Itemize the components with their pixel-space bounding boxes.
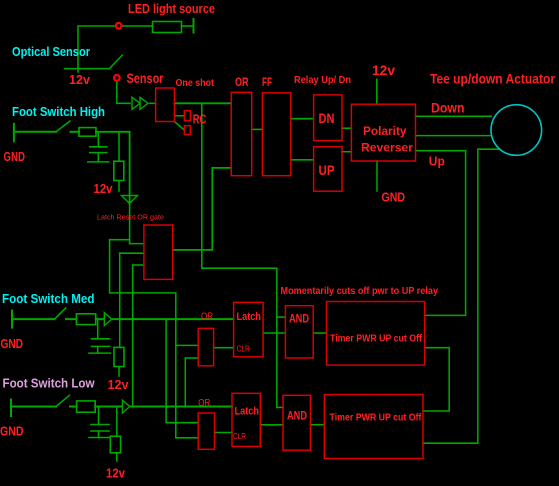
wire LED resistor lead	[182, 25, 194, 27]
wire high cap lead	[97, 132, 99, 147]
node LED supply	[116, 23, 122, 29]
svg-text:OR: OR	[201, 311, 213, 323]
capacitor C3 low	[89, 407, 110, 438]
resistor R4 med series	[76, 314, 95, 325]
terminal LED cathode bar	[193, 19, 195, 33]
op-amp U5 latch reset OR gate	[144, 225, 173, 279]
svg-text:RC: RC	[193, 112, 207, 127]
op-amp U7 Latch1	[234, 302, 264, 357]
op-amp U6 OR1 reset gate	[198, 328, 213, 366]
wire med sense riser	[119, 253, 121, 347]
transistor Q1 high buffer triangle	[122, 196, 138, 204]
svg-text:Foot Switch Med: Foot Switch Med	[2, 291, 95, 306]
wire one shot to RC R	[174, 115, 184, 117]
op-amp U13 Timer2	[324, 395, 423, 459]
op-amp U11 Latch2	[232, 393, 260, 446]
svg-text:AND: AND	[287, 409, 307, 423]
relay DN	[314, 95, 342, 141]
wire LROR input1	[130, 243, 144, 245]
switch SW3 med throw	[55, 308, 66, 319]
wire OR to FF	[252, 128, 263, 130]
wire OR2 input2 stub	[176, 437, 198, 439]
switch SW2 high throw	[56, 121, 70, 132]
wire OR1 out to latch1 CLR	[214, 347, 234, 349]
diode D1 sensor	[132, 97, 140, 109]
svg-text:Timer PWR UP cut Off: Timer PWR UP cut Off	[330, 412, 422, 424]
capacitor RC C	[184, 126, 190, 135]
svg-text:12v: 12v	[108, 377, 130, 392]
wire latch1 to AND1	[263, 332, 285, 334]
op-amp U4 polarity reverser	[351, 104, 415, 161]
op-amp U2 OR gate	[231, 92, 252, 175]
wire low pullup to 12v	[116, 454, 118, 461]
svg-text:Momentarily cuts off pwr to UP: Momentarily cuts off pwr to UP relay	[281, 286, 439, 297]
svg-text:OR: OR	[235, 77, 249, 89]
op-amp U12 AND2	[283, 395, 310, 450]
svg-text:CLR: CLR	[233, 431, 246, 441]
resistor R2 high series	[79, 128, 96, 137]
svg-text:Latch: Latch	[237, 311, 262, 323]
wire actuator to timer2	[423, 149, 499, 443]
resistor R7 low pullup	[110, 436, 120, 453]
wire one shot output	[174, 102, 231, 104]
wire UP to PR	[342, 151, 351, 153]
svg-text:One shot: One shot	[176, 77, 215, 89]
op-amp U8 AND1	[285, 306, 313, 358]
svg-text:Relay Up/ Dn: Relay Up/ Dn	[294, 75, 351, 86]
wire low pullup lead	[116, 407, 118, 437]
wire buffer down	[129, 204, 131, 244]
resistor R1 LED	[153, 22, 182, 33]
wire PR down output	[416, 115, 492, 117]
wire optical 12v riser	[78, 26, 153, 72]
svg-text:LED light source: LED light source	[128, 1, 215, 16]
motor M1 actuator circle	[491, 105, 542, 156]
wire high switch	[14, 131, 56, 133]
wire low switch to resistor	[70, 406, 77, 408]
wire med resistor to diode	[96, 318, 104, 320]
svg-text:CLR: CLR	[237, 344, 250, 354]
svg-text:GND: GND	[1, 336, 24, 351]
wire med to OR2 input1	[166, 319, 198, 423]
wire optical switch common	[65, 68, 110, 70]
svg-text:12v: 12v	[94, 181, 114, 196]
wire PR up output to timer1	[416, 151, 466, 316]
wire PR middle output	[416, 135, 492, 137]
wire low sense riser	[132, 265, 134, 407]
op-amp U3 FF flip flop	[262, 93, 290, 176]
resistor R5 med pullup	[114, 347, 124, 366]
wire OR1 input2 stub	[185, 357, 198, 359]
op-amp U1 one shot	[156, 88, 175, 122]
svg-text:AND: AND	[289, 312, 309, 326]
wire med switch	[12, 318, 55, 320]
wire FF to DN	[291, 118, 314, 120]
wire OR1 input1 stub	[176, 344, 198, 346]
svg-text:Up: Up	[429, 155, 445, 169]
diode D4 low	[122, 400, 129, 413]
op-amp U9 Timer1	[327, 302, 425, 366]
wire low to latch2	[131, 406, 232, 408]
wire high switch to resistor	[71, 131, 80, 133]
svg-text:Sensor: Sensor	[127, 70, 164, 86]
wire AND1 to timer1	[313, 332, 326, 334]
wire LROR input3 stub	[133, 264, 144, 266]
svg-text:Polarity: Polarity	[363, 124, 407, 138]
resistor RC R	[184, 111, 190, 121]
svg-text:Optical Sensor: Optical Sensor	[12, 44, 90, 59]
svg-text:GND: GND	[4, 149, 26, 164]
svg-text:Foot Switch High: Foot Switch High	[12, 104, 105, 119]
switch SW4 low throw	[56, 395, 70, 406]
op-amp U10 OR2 reset gate	[198, 413, 214, 449]
terminal low switch	[10, 400, 12, 417]
wire low resistor to diode	[95, 406, 122, 408]
svg-text:Down: Down	[431, 100, 465, 116]
svg-text:GND: GND	[0, 424, 24, 439]
wire high resistor to buffer	[96, 132, 130, 204]
wire latch2 to AND2	[260, 424, 283, 426]
node Sensor	[114, 75, 120, 81]
capacitor C2 med	[89, 319, 110, 353]
diode D3 med	[104, 313, 111, 326]
capacitor C1 high	[88, 147, 109, 162]
switch SW1 optical throw	[109, 55, 122, 68]
svg-text:12v: 12v	[69, 72, 91, 87]
wire 12v to PR	[376, 79, 378, 104]
wire OR2 out to latch2 CLR	[215, 432, 233, 434]
svg-text:UP: UP	[319, 162, 335, 178]
wire timer1 to timer2	[423, 348, 449, 411]
terminal high switch	[13, 124, 15, 142]
resistor R6 low series	[77, 401, 96, 412]
wire med to latch1	[113, 318, 234, 320]
wire high branch left	[110, 239, 130, 241]
wire LROR output to OR	[173, 168, 232, 250]
svg-text:Timer PWR UP cut Off: Timer PWR UP cut Off	[330, 333, 422, 345]
svg-text:Latch: Latch	[235, 406, 260, 418]
wire low switch	[11, 406, 56, 408]
wire med pullup to 12v	[118, 367, 120, 377]
svg-text:12v: 12v	[372, 62, 395, 78]
terminal med switch	[11, 311, 13, 328]
wire one shot to RC C diagonal	[174, 122, 184, 131]
wire AND2 input1 stub	[277, 406, 283, 408]
wire high branch to OR gates	[110, 240, 176, 438]
wire PR to GND	[376, 161, 378, 191]
wire LROR input2 stub	[120, 252, 144, 254]
wire diodes to one shot	[150, 102, 156, 104]
svg-text:Tee up/down Actuator: Tee up/down Actuator	[430, 72, 556, 87]
wire FF to UP	[291, 159, 314, 161]
svg-text:Latch Reset OR gate: Latch Reset OR gate	[97, 213, 164, 222]
wire high pullup lead	[118, 132, 120, 161]
wire DN to PR	[342, 127, 351, 129]
relay UP	[314, 147, 342, 192]
wire AND1 input1 stub	[277, 316, 286, 318]
wire one shot junction drop	[202, 103, 277, 407]
wire AND2 to timer2	[310, 424, 324, 426]
svg-text:Foot Switch Low: Foot Switch Low	[3, 376, 96, 391]
wire low to OR1 riser	[184, 358, 186, 407]
resistor R3 high pullup	[114, 161, 124, 180]
diode D2 sensor	[140, 97, 148, 109]
svg-text:12v: 12v	[106, 466, 126, 481]
svg-text:GND: GND	[382, 190, 406, 205]
svg-text:FF: FF	[262, 77, 272, 89]
svg-text:DN: DN	[319, 110, 335, 126]
wire sensor drop	[117, 81, 130, 103]
wire high pullup to 12v	[118, 181, 120, 191]
wire med switch to resistor	[66, 318, 76, 320]
svg-text:Reverser: Reverser	[361, 141, 413, 155]
svg-text:OR: OR	[198, 397, 210, 409]
